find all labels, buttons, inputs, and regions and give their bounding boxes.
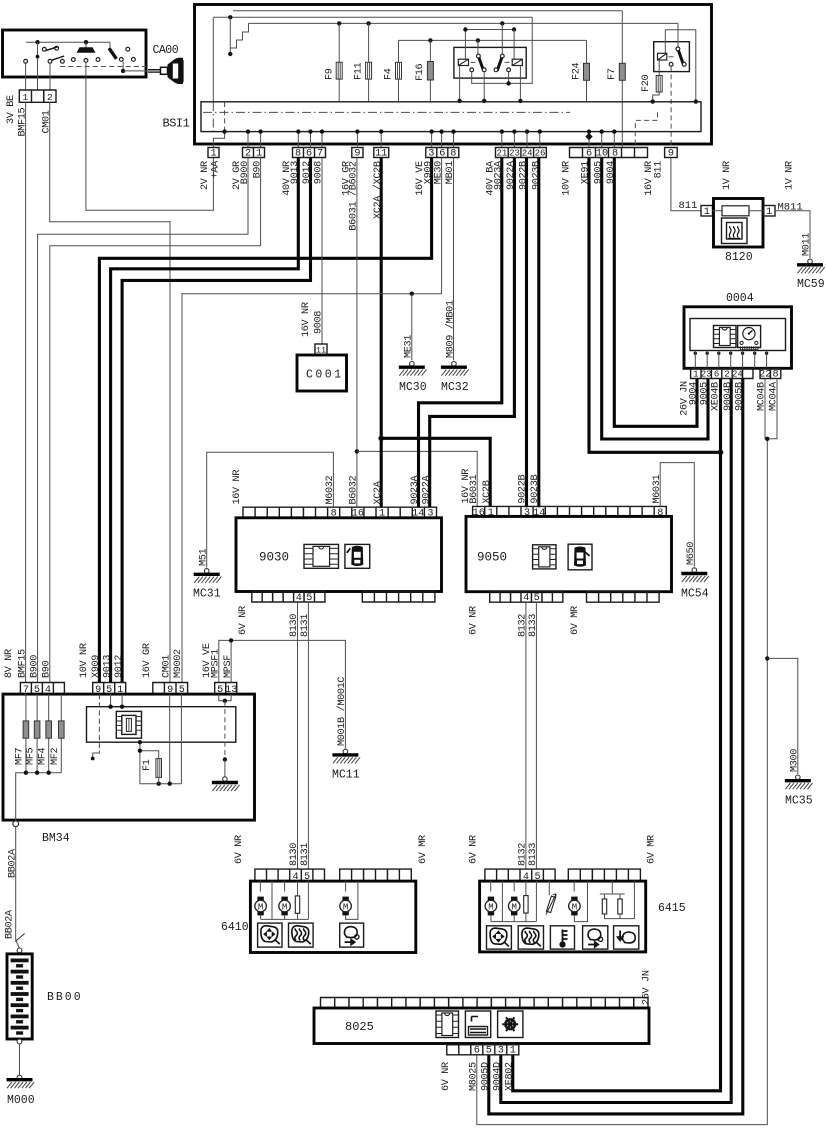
9050 car lock icon [568,544,592,570]
BSI relay R3 coil [664,30,666,54]
engine fuse box BM34 [3,694,255,820]
svg-text:CA00: CA00 [153,44,179,57]
wire M811 to ground MC59 [775,211,810,258]
wire 9005 thick [602,158,708,440]
wire 8131 [307,602,309,869]
fuse F24 [586,40,588,101]
door module 9030 top pin row [243,507,437,518]
wire BB02A [16,827,20,948]
svg-text:8133: 8133 [528,614,539,637]
8120 resistor element [722,206,749,216]
svg-text:BB00: BB00 [47,991,83,1004]
svg-text:24: 24 [732,369,743,379]
svg-text:23: 23 [509,148,520,158]
wire battery to ground M000 [19,1044,21,1076]
fuse F7 [621,11,623,148]
wire 8130 [297,602,299,869]
BSI relay R2 contact [501,23,503,54]
BSI internal zigzag [230,17,248,54]
fuse F16 [429,40,431,101]
door module 9030 box [236,518,442,592]
door module 9050 top pin row [473,506,667,517]
mirror unit 6415 top pins left [485,869,555,881]
svg-text:8025: 8025 [345,1020,374,1034]
svg-text:MB01: MB01 [445,161,456,184]
9050 IC icon [533,545,556,569]
6410 cell stub [271,881,273,919]
svg-text:M300: M300 [790,749,801,772]
BSI pins 6 10 8 and blanks [570,148,648,158]
svg-text:MC35: MC35 [785,795,813,808]
svg-text:16V GR: 16V GR [142,643,153,678]
svg-text:M: M [488,902,493,912]
9050 bottom pin row right [587,592,660,603]
BSI pins 21 23 24 26 [496,148,547,158]
BSI relay R1 contact [477,40,479,54]
svg-text:B90: B90 [42,660,53,678]
6415 resistor pair [611,881,613,894]
svg-text:M011: M011 [802,233,813,256]
svg-text:B900: B900 [240,161,251,184]
BSI pin 9 811 [665,148,678,158]
svg-text:M9002: M9002 [173,649,184,678]
svg-text:F20: F20 [641,74,652,92]
svg-text:MPSF: MPSF [223,655,234,678]
BSI pin feeds 40V BA group [501,132,503,148]
9050 bottom pin row left [490,592,563,603]
fuse F20 [653,60,660,102]
BSI pin 1 +AA [208,148,219,158]
8025 IC icon [436,1011,459,1038]
svg-text:9023B: 9023B [530,475,541,504]
BSI pin feeds 9013 9012 9008 [297,132,299,148]
svg-text:23: 23 [701,369,712,379]
6415 cell stub [501,881,503,922]
svg-text:8132: 8132 [518,843,529,866]
svg-text:B900: B900 [29,655,40,678]
svg-text:CM01: CM01 [162,655,173,678]
door module 9050 box [466,516,672,591]
svg-text:M811: M811 [778,202,803,214]
fuse MF4 [48,694,50,773]
BSI pin feed XC2A [380,132,382,148]
svg-text:6V NR: 6V NR [469,835,480,864]
svg-text:9050: 9050 [477,551,507,565]
instrument cluster 0004 box [684,307,792,369]
0004 inner box [690,319,786,351]
6415 motor 3 [573,881,575,891]
svg-text:B6031 /B6032: B6031 /B6032 [348,161,360,230]
svg-text:6V NR: 6V NR [441,1062,452,1091]
svg-text:9030: 9030 [259,551,289,565]
fuse MF2 [60,694,62,773]
svg-text:M: M [258,902,263,912]
wire 8132 [525,602,527,869]
6415 motor 1 [490,881,492,891]
svg-text:MC32: MC32 [441,381,469,394]
svg-text:9004: 9004 [689,382,700,405]
svg-text:MF7: MF7 [15,747,26,765]
fuse F9 [338,23,340,102]
BSI relay dashed links [471,61,511,63]
svg-text:BSI1: BSI1 [163,117,190,131]
svg-text:5: 5 [306,593,312,604]
svg-text:8133: 8133 [528,843,539,866]
svg-text:8120: 8120 [725,251,753,264]
6410 bottom bus left [261,918,309,920]
8120 internal link [713,210,764,212]
wire 9022A thick [430,158,515,508]
BSI relay R1 coil [464,30,466,60]
wire X909 thick [99,158,431,683]
svg-text:1: 1 [766,207,772,218]
6415 wire pin5 down [535,881,537,922]
6415 fold icon left-arrow [614,926,639,949]
svg-text:F7: F7 [607,68,618,80]
svg-text:M: M [511,902,516,912]
wire M6031 to ground MC54 [660,463,694,567]
svg-text:M8025: M8025 [469,1062,480,1091]
BM34 internal bottom link [140,742,182,784]
cigar lighter 8120 box [714,199,764,248]
wire 8133 [535,602,537,869]
svg-text:6V NR: 6V NR [234,835,245,864]
6415 adjust icon [487,926,512,949]
battery BB00 [7,954,32,1039]
6410 motor 1 [259,881,261,891]
svg-text:26: 26 [535,148,546,158]
svg-text:MC11: MC11 [332,769,360,782]
svg-text:BMF15: BMF15 [17,649,28,678]
9030 bottom pin row right [362,592,435,603]
wire 9008 to C001 [321,158,323,345]
svg-text:B90: B90 [252,161,263,179]
svg-text:6V NR: 6V NR [469,606,480,635]
BM34 fuse output bus [16,773,62,822]
svg-text:MC30: MC30 [399,381,427,394]
6415 heated icon [518,926,543,949]
9030 car lock icon [345,544,370,568]
0004 IC icon [714,326,737,348]
svg-text:M6032: M6032 [325,475,336,504]
climate unit 8025 top pin row [321,998,649,1009]
wire XE91/XE04B thick [589,158,721,453]
svg-text:X909: X909 [91,655,102,678]
svg-text:21: 21 [496,148,507,158]
BSI relay R3 contact [676,47,680,51]
6410 resistor [297,881,299,919]
svg-text:9008: 9008 [314,311,325,334]
mirror unit 6410 top pins right [340,869,412,881]
wire ME30/M9002 [182,158,442,683]
svg-text:BB02A: BB02A [8,848,19,878]
svg-text:2V NR: 2V NR [200,161,211,190]
svg-text:6415: 6415 [658,902,686,915]
svg-text:MF2: MF2 [50,747,61,765]
ground MC59 [808,259,813,264]
svg-text:26V JN: 26V JN [642,970,653,1005]
BSI internal rail B [213,16,532,18]
BSI feed line F4-F16-relay [399,39,587,41]
connector C001 pin 11 [315,344,327,355]
wire 9022B thick [525,158,528,508]
svg-text:8130: 8130 [289,843,300,866]
svg-text:XC2A: XC2A [373,480,384,504]
BSI pin feeds X909 ME30 MB01 [431,132,433,148]
BSI rail C drop to R3 contact [677,23,679,47]
wire CA00 to CM01 pin1 [25,63,27,90]
BM34 pin group 9 5 1 [93,683,126,695]
svg-text:ME30: ME30 [433,161,444,184]
wire B6031/B6032 [356,158,358,508]
fuse F1 [140,751,159,759]
svg-text:2: 2 [724,369,729,379]
svg-text:1: 1 [510,1046,516,1057]
BSI relay R3 box [654,42,690,72]
svg-text:16V NR: 16V NR [232,470,243,505]
ground MC30 [410,362,415,367]
svg-text:811: 811 [679,200,698,212]
wire B900 BSI to BM34 pin5 [38,158,248,683]
svg-text:M: M [343,902,348,912]
wire 9012 thick [122,158,310,683]
svg-text:BMF15: BMF15 [17,107,28,136]
wire 9013 thick [111,158,299,683]
BSI internal +AA column [212,17,214,102]
8025 clock icon [465,1011,490,1038]
svg-text:9005D: 9005D [481,1062,492,1091]
8025 snowflake icon [498,1011,523,1038]
svg-text:XC2B: XC2B [482,480,493,503]
9030 IC icon [304,544,339,568]
wire 811 dashed from R3 [670,66,672,147]
wire +AA from CA00 switch [86,63,213,211]
mirror unit 6410 top pins left [255,869,325,881]
svg-text:MPSF1: MPSF1 [211,649,222,678]
BM34 CM01 internal column [169,694,171,784]
BM34 X909 internal dashed [98,694,100,750]
svg-text:MC31: MC31 [193,588,221,601]
BM34 pin group 5 13 [215,683,237,695]
wire CA00 to CM01 pin2 [49,63,51,90]
svg-text:+AA: +AA [211,160,222,179]
svg-text:M001B /M001C: M001B /M001C [336,677,348,746]
BSI rail internal dashed drop right [635,112,657,147]
svg-text:F16: F16 [415,63,426,81]
svg-text:4: 4 [296,593,302,604]
BSI pin feed B6031 [356,132,358,148]
wire CM01 pin2 to BM34 pin9 [50,102,170,682]
BSI relay R2 coil [513,30,515,60]
BM34 internal rail box [87,707,236,743]
BM34 9013 stub [110,694,112,707]
svg-text:9023A: 9023A [410,474,421,504]
svg-text:2: 2 [47,92,53,103]
BM34 internal ground [223,777,228,782]
fuse F4 [398,40,400,102]
6410 motor 3 [345,881,347,891]
svg-text:MF4: MF4 [37,747,48,765]
ignition switch CA00 box [3,30,147,77]
svg-text:B6032: B6032 [349,475,360,504]
svg-text:M: M [282,902,287,912]
svg-text:9004D: 9004D [493,1062,504,1091]
svg-text:8: 8 [773,369,779,380]
BSI pin feeds 10V NR group [588,132,590,148]
BM34 pin group 7 5 4 [20,683,64,695]
svg-text:MC04B: MC04B [757,382,768,411]
svg-text:1: 1 [256,148,262,159]
svg-text:24: 24 [522,148,533,158]
fuse MF5 [36,694,38,773]
6410 adjust icon [258,923,282,947]
ground MC32 [452,362,457,367]
svg-text:9023B: 9023B [532,161,543,190]
svg-text:5: 5 [486,1046,492,1057]
6415 thermistor [548,881,550,895]
wire 9004B thick [501,379,731,1103]
BSI1 body control unit box [195,5,712,145]
BM34 battery terminal [13,821,19,827]
battery BB00 terminal top [17,948,22,953]
svg-text:1V NR: 1V NR [722,161,733,190]
0004 pin cells [691,368,753,378]
wire XC2A/XC2B thick [380,158,383,508]
svg-text:3V BE: 3V BE [6,95,17,124]
BSI pin 9 B6031 [352,148,363,158]
svg-text:811: 811 [653,161,664,179]
fuse F11 [368,23,370,102]
6410 heated icon [289,923,314,947]
svg-text:F4: F4 [384,68,395,80]
6415 motor 2 [513,881,515,891]
wire MC04B [477,379,768,1125]
key symbol of CA00 [146,70,161,72]
svg-text:CM01: CM01 [41,110,52,133]
BM34 pin group 9 5 [153,683,188,695]
BSI pins 3 6 8 [426,148,459,158]
BM34 9012 stub [121,694,123,707]
CA00 switch contact S1 [37,42,39,56]
ground MC35 [796,775,801,780]
svg-text:9008: 9008 [314,161,325,184]
wire 9004 thick [614,158,697,427]
svg-text:10V NR: 10V NR [79,643,90,678]
BSI internal rail C [249,22,679,24]
6415 thermometer icon [550,926,574,949]
svg-text:0004: 0004 [726,292,754,305]
fuse MF7 [25,694,27,773]
wire 811 to lighter 8120 [671,158,701,211]
diagnostic socket C001 box [297,355,347,391]
wire CA00 to CM01 middle [37,58,39,90]
svg-text:6: 6 [474,1046,480,1057]
svg-text:6: 6 [714,369,719,379]
svg-text:16V NR: 16V NR [301,302,312,337]
svg-text:10V NR: 10V NR [562,161,573,196]
svg-text:MC59: MC59 [797,278,825,291]
wire M6032 to ground MC31 [207,452,334,567]
ground M000 [17,1075,22,1080]
svg-text:8130: 8130 [289,614,300,637]
BSI pins 2 1 B900 [243,148,265,158]
svg-text:6V MR: 6V MR [647,835,658,864]
svg-text:8V NR: 8V NR [4,649,15,678]
svg-text:XE802: XE802 [505,1062,516,1091]
8120 heater element icon [722,218,748,244]
ground MC54 [692,568,697,573]
svg-text:8131: 8131 [300,614,311,637]
svg-text:M809 /MB01: M809 /MB01 [445,300,457,358]
CA00 switch contact S3 [109,42,111,48]
svg-text:1: 1 [704,207,710,218]
svg-text:6: 6 [439,148,445,159]
svg-text:C001: C001 [306,369,344,382]
wire M300 branch to ground MC35 [765,656,769,660]
svg-text:M650: M650 [686,542,697,565]
6410 fold icon [340,923,364,947]
svg-text:MF5: MF5 [26,747,37,765]
svg-text:6V MR: 6V MR [418,835,429,864]
wire 9023A thick [419,158,502,508]
svg-text:MC54: MC54 [681,588,709,601]
BSI relay output link [472,17,533,83]
svg-text:M000: M000 [7,1094,35,1107]
svg-text:9022B: 9022B [518,475,529,504]
svg-text:BM34: BM34 [42,832,70,845]
svg-text:BB02A: BB02A [5,909,16,939]
mirror unit 6415 box [480,881,646,952]
CA00 switch contact S2 [85,42,87,47]
connector pin 1 right of 8120 [764,206,776,217]
wire CA00 key link [123,70,146,72]
svg-text:M: M [572,902,577,912]
svg-text:MC04A: MC04A [769,381,780,411]
6410 motor 2 [284,881,286,891]
mirror unit 6415 top pins right [568,869,640,881]
wire ME31 to ground MC30 [411,294,413,361]
svg-text:M51: M51 [198,548,209,566]
BSI rail segment to R3 [665,30,696,102]
BSI pins 8 6 7 [293,148,326,158]
svg-text:F11: F11 [354,62,365,80]
8025 bottom pin cells [447,1045,519,1055]
9030 bottom pin row left [252,592,325,603]
svg-text:9013: 9013 [102,655,113,678]
ground MC31 [204,569,209,574]
connector pin 1 left of 8120 [701,206,713,217]
svg-text:9022A: 9022A [421,474,432,504]
BM34 M9002 internal column [180,694,182,784]
connector CM01 pin row [19,90,56,102]
svg-text:1: 1 [210,148,216,159]
svg-text:ME31: ME31 [404,335,415,358]
svg-text:XE04B: XE04B [711,382,722,411]
wire B90 BSI to BM34 pin4 [50,158,261,683]
svg-text:8131: 8131 [300,843,311,866]
wire 9005B thick [489,379,743,1114]
wire MB01 to ground MC32 [453,158,455,361]
svg-text:1: 1 [23,92,29,103]
svg-text:F9: F9 [325,68,336,80]
CA00 internal supply bus [26,41,110,43]
svg-text:F1: F1 [142,759,153,771]
svg-text:8132: 8132 [518,614,529,637]
6415 fold icon right [583,926,608,949]
svg-text:9012: 9012 [114,655,125,678]
BM34 internal relay icon [116,711,141,738]
wire MPSF1 MPSF to ground MC11 [219,640,346,748]
